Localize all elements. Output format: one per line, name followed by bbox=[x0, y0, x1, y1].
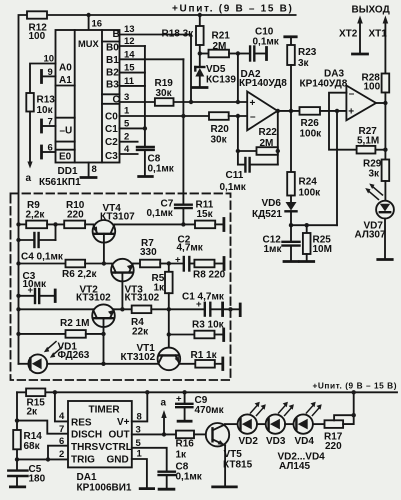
svg-text:22к: 22к bbox=[132, 326, 149, 337]
svg-text:2М: 2М bbox=[260, 138, 274, 149]
transistor VT5 KT815 bbox=[206, 423, 229, 446]
wire B1/C0 vertical down to C7 bbox=[182, 59, 184, 204]
node bus-R9 bbox=[16, 222, 20, 226]
svg-text:XT1: XT1 bbox=[369, 29, 388, 40]
node rail-R18 bbox=[198, 13, 202, 17]
op-amp DA3 KR140UD8 bbox=[346, 86, 376, 121]
resistor R25 bbox=[305, 223, 309, 227]
svg-text:C11: C11 bbox=[226, 170, 244, 181]
pin 15 wire B2 bbox=[120, 72, 145, 74]
resistor R26 bbox=[300, 107, 321, 115]
svg-text:5: 5 bbox=[124, 118, 130, 129]
svg-text:6: 6 bbox=[48, 143, 53, 154]
wire OUT pin3 bbox=[132, 433, 176, 435]
svg-text:4: 4 bbox=[124, 144, 130, 155]
svg-text:КТ3102: КТ3102 bbox=[121, 352, 156, 363]
LED VD3 bbox=[266, 414, 285, 433]
svg-text:2к: 2к bbox=[27, 407, 39, 418]
svg-text:14: 14 bbox=[124, 49, 135, 60]
wire DISCH pin7 bbox=[17, 421, 68, 434]
svg-text:+Uпит. (9 В – 15 В): +Uпит. (9 В – 15 В) bbox=[172, 4, 294, 15]
svg-text:DISCH: DISCH bbox=[71, 430, 102, 441]
svg-text:7: 7 bbox=[59, 424, 64, 435]
svg-text:VT5: VT5 bbox=[224, 449, 243, 460]
svg-text:+: + bbox=[348, 107, 354, 118]
svg-text:R18 3к: R18 3к bbox=[162, 29, 195, 40]
svg-text:КР1006ВИ1: КР1006ВИ1 bbox=[77, 483, 132, 494]
svg-text:330: 330 bbox=[140, 247, 157, 258]
pin 10 wire A0 bbox=[30, 64, 56, 94]
svg-text:1: 1 bbox=[124, 106, 130, 117]
feedback vertical DA2 minus bbox=[237, 116, 239, 165]
node rail-RES bbox=[53, 390, 57, 394]
capacitor C2 polarized bbox=[169, 263, 183, 265]
wire GND pin1 bbox=[132, 459, 147, 489]
transistor VT1 KT3102 inverted bbox=[168, 309, 170, 355]
terminal XT2 bbox=[359, 20, 361, 54]
svg-text:470мк: 470мк bbox=[195, 405, 225, 416]
svg-text:КТ3102: КТ3102 bbox=[76, 293, 111, 304]
svg-text:a: a bbox=[161, 397, 167, 408]
svg-text:TIMER: TIMER bbox=[89, 404, 121, 415]
svg-text:100: 100 bbox=[364, 82, 381, 93]
VD1 light arrows bbox=[47, 342, 63, 356]
pin 11 wire B3 bbox=[120, 85, 145, 87]
svg-text:1мк: 1мк bbox=[264, 244, 283, 255]
left vertical R14 chain bbox=[16, 392, 18, 470]
svg-text:30к: 30к bbox=[156, 88, 173, 99]
svg-text:2М: 2М bbox=[213, 41, 227, 52]
bottom +U rail bbox=[17, 391, 397, 393]
transistor VT2 KT3102 bbox=[16, 307, 20, 311]
svg-text:E0: E0 bbox=[59, 151, 72, 162]
IC DA1 KR1006VI1 timer box bbox=[68, 401, 132, 467]
resistor R5 bbox=[168, 264, 170, 272]
svg-text:0,1мк: 0,1мк bbox=[253, 37, 280, 48]
svg-text:R16: R16 bbox=[176, 439, 195, 450]
resistor R8 bbox=[190, 263, 194, 265]
capacitor C8b bbox=[159, 471, 175, 473]
svg-text:–: – bbox=[250, 112, 256, 123]
wire VT4 collector row bbox=[115, 223, 196, 225]
svg-text:10М: 10М bbox=[313, 244, 332, 255]
svg-text:5: 5 bbox=[136, 438, 142, 449]
pin 9 wire A1 + common bar bbox=[42, 75, 56, 77]
LED VD4 bbox=[294, 414, 313, 433]
svg-text:DA1: DA1 bbox=[77, 472, 97, 483]
svg-text:68к: 68к bbox=[24, 441, 41, 452]
pin 14 wire B1 bbox=[120, 58, 184, 60]
svg-text:6: 6 bbox=[59, 436, 64, 447]
svg-text:КТ3107: КТ3107 bbox=[100, 212, 135, 223]
svg-text:100: 100 bbox=[29, 31, 46, 42]
svg-text:АЛ307: АЛ307 bbox=[355, 230, 386, 241]
node R21-C10 bbox=[236, 51, 240, 55]
wire DA3 out bbox=[376, 102, 385, 104]
capacitor C11 bbox=[238, 164, 245, 166]
pin 2 wire C2 stub bbox=[120, 141, 138, 143]
resistor R27 bbox=[357, 146, 376, 154]
svg-text:OUT: OUT bbox=[109, 430, 130, 441]
svg-text:VD2: VD2 bbox=[239, 436, 259, 447]
node VD6-C12 bbox=[289, 223, 293, 227]
svg-text:1к: 1к bbox=[154, 282, 166, 293]
svg-text:+Uпит. (9 В – 15 В): +Uпит. (9 В – 15 В) bbox=[313, 380, 398, 390]
svg-text:GND: GND bbox=[107, 455, 129, 466]
pin 12 wire B0 bbox=[120, 45, 145, 47]
svg-text:V+: V+ bbox=[117, 417, 130, 428]
svg-text:–U: –U bbox=[60, 126, 73, 137]
svg-text:R13: R13 bbox=[37, 95, 56, 106]
svg-text:R24: R24 bbox=[299, 177, 318, 188]
capacitor C7 bbox=[175, 203, 192, 205]
svg-text:4: 4 bbox=[59, 411, 65, 422]
resistor R28 bbox=[382, 74, 390, 93]
VD7 light arrows bbox=[368, 186, 383, 200]
resistor R3 bbox=[169, 334, 195, 336]
svg-text:10к: 10к bbox=[37, 105, 54, 116]
op-amp DA2 KR140UD8 bbox=[247, 92, 277, 131]
svg-text:XT2: XT2 bbox=[339, 29, 358, 40]
resistor R22 bbox=[238, 150, 257, 152]
svg-text:КТ3102: КТ3102 bbox=[125, 293, 160, 304]
svg-text:ВЫХОД: ВЫХОД bbox=[352, 5, 390, 16]
resistor R9 bbox=[19, 223, 27, 225]
svg-text:2,2к: 2,2к bbox=[26, 209, 46, 220]
svg-text:R21: R21 bbox=[212, 31, 231, 42]
svg-text:R23: R23 bbox=[298, 47, 317, 58]
zener VD5 KS139 bbox=[199, 54, 201, 68]
node VT2 emitter-VT3 base-R4 bbox=[114, 308, 132, 310]
svg-text:1: 1 bbox=[137, 448, 143, 459]
resistor R24 bbox=[290, 111, 292, 172]
svg-text:C1: C1 bbox=[105, 124, 118, 135]
pin 4 wire C3 stub bbox=[120, 153, 138, 155]
capacitor C3 polarized bbox=[16, 294, 20, 298]
wire R21 node to DA2 plus input bbox=[237, 54, 239, 103]
svg-text:ФД263: ФД263 bbox=[58, 350, 90, 361]
svg-text:10мк: 10мк bbox=[23, 279, 48, 290]
svg-text:C2: C2 bbox=[105, 137, 118, 148]
capacitor C8 bbox=[137, 146, 154, 148]
svg-text:2: 2 bbox=[124, 132, 129, 143]
node a arrow bbox=[163, 414, 165, 435]
resistor R14 bbox=[13, 430, 21, 449]
svg-text:15: 15 bbox=[124, 63, 135, 74]
+U power rail top bbox=[19, 15, 296, 364]
resistor R23 bbox=[285, 35, 296, 38]
svg-text:VD6: VD6 bbox=[262, 198, 282, 209]
svg-text:3: 3 bbox=[136, 425, 141, 436]
svg-text:3к: 3к bbox=[369, 169, 381, 180]
feedback vertical DA2 out bbox=[277, 111, 279, 165]
svg-text:R26: R26 bbox=[301, 118, 320, 129]
wire B0 bus vertical to C8 bbox=[144, 46, 146, 147]
svg-text:R8 220: R8 220 bbox=[193, 270, 226, 281]
wire RES pin4 bbox=[55, 392, 68, 421]
wire VCTRL pin5 bbox=[132, 448, 167, 471]
pin 8 ground stub bbox=[88, 163, 90, 178]
wire VT1 left row bbox=[104, 363, 159, 365]
node a label bbox=[26, 173, 32, 184]
svg-text:RES: RES bbox=[71, 418, 92, 429]
pin 1 wire C0 bbox=[120, 115, 210, 117]
pin 5 wire C1 bbox=[120, 127, 145, 129]
pin 7 wire -U + common bar bbox=[42, 125, 56, 127]
svg-text:B1: B1 bbox=[106, 55, 119, 66]
svg-text:11: 11 bbox=[124, 76, 135, 87]
resistor R11 bbox=[195, 221, 215, 229]
svg-text:B2: B2 bbox=[106, 67, 119, 78]
svg-text:АЛ145: АЛ145 bbox=[279, 461, 310, 472]
svg-text:a: a bbox=[26, 173, 32, 184]
svg-text:8: 8 bbox=[92, 164, 97, 175]
svg-text:MUX: MUX bbox=[78, 39, 99, 49]
svg-text:R20: R20 bbox=[211, 124, 230, 135]
svg-text:VCTRL: VCTRL bbox=[99, 442, 132, 453]
svg-text:КТ815: КТ815 bbox=[223, 460, 253, 471]
node R20-DA2 minus bbox=[229, 115, 248, 117]
svg-text:0,1мк: 0,1мк bbox=[147, 208, 174, 219]
resistor R18 bbox=[199, 15, 201, 26]
svg-text:13: 13 bbox=[124, 24, 135, 35]
svg-text:9: 9 bbox=[48, 67, 53, 78]
svg-text:12: 12 bbox=[124, 36, 135, 47]
svg-text:4,7мк: 4,7мк bbox=[177, 243, 204, 254]
svg-text:8: 8 bbox=[137, 412, 142, 423]
svg-text:THRS: THRS bbox=[71, 442, 99, 453]
svg-text:10: 10 bbox=[44, 54, 55, 65]
resistor R6 bbox=[16, 261, 20, 265]
wire DA2 out bbox=[278, 110, 300, 112]
svg-text:1к: 1к bbox=[176, 449, 188, 460]
svg-text:R1 1к: R1 1к bbox=[191, 350, 218, 361]
node C1-B0bus bbox=[143, 126, 147, 130]
svg-text:0,1мк: 0,1мк bbox=[220, 182, 247, 193]
svg-text:B3: B3 bbox=[106, 80, 119, 91]
svg-text:+: + bbox=[176, 394, 182, 405]
svg-text:VD3: VD3 bbox=[266, 436, 286, 447]
svg-text:B0: B0 bbox=[106, 42, 119, 53]
dashed screen box bbox=[11, 193, 231, 380]
svg-text:R2 1М: R2 1М bbox=[60, 318, 89, 329]
svg-text:100к: 100к bbox=[299, 188, 322, 199]
svg-text:30к: 30к bbox=[211, 135, 228, 146]
svg-text:180: 180 bbox=[29, 474, 46, 485]
resistor R19 bbox=[155, 98, 174, 106]
capacitor C10 bbox=[238, 53, 249, 55]
wire TRIG pin2 bbox=[17, 458, 68, 460]
resistor R7 bbox=[133, 263, 140, 265]
svg-text:100к: 100к bbox=[300, 129, 323, 140]
svg-text:C: C bbox=[113, 94, 120, 105]
wire V+ pin8 bbox=[132, 392, 148, 421]
wire DA3 minus feedback bbox=[329, 93, 357, 150]
resistor R1 bbox=[180, 363, 196, 365]
svg-text:220: 220 bbox=[325, 441, 342, 452]
wire pin16 bbox=[88, 15, 90, 30]
pin 6 wire E0 + common bar bbox=[42, 151, 56, 153]
screen common stub bbox=[224, 308, 240, 310]
capacitor C5 bbox=[8, 469, 27, 471]
svg-text:R3 10к: R3 10к bbox=[192, 320, 225, 331]
svg-text:КР140УД8: КР140УД8 bbox=[239, 78, 287, 89]
resistor R16 bbox=[176, 431, 194, 439]
svg-text:VD4: VD4 bbox=[295, 436, 315, 447]
svg-text:R6 2,2к: R6 2,2к bbox=[62, 269, 97, 280]
resistor R21 bbox=[200, 53, 209, 55]
transistor VT3 KT3102 bbox=[111, 259, 134, 282]
resistor R17 trimmer bbox=[325, 420, 344, 428]
svg-text:C3: C3 bbox=[105, 151, 118, 162]
IC DD1 K561KP1 MUX box bbox=[56, 30, 120, 163]
svg-text:КС139: КС139 bbox=[206, 75, 236, 86]
diode VD6 KD521 bbox=[290, 196, 292, 203]
svg-text:0,1мк: 0,1мк bbox=[148, 164, 175, 175]
svg-text:TRIG: TRIG bbox=[71, 455, 95, 466]
svg-text:A1: A1 bbox=[59, 75, 72, 86]
resistor R4 bbox=[132, 306, 152, 314]
wire R13 to node a arrow bbox=[29, 112, 31, 164]
svg-text:220: 220 bbox=[67, 209, 84, 220]
svg-text:DD1: DD1 bbox=[58, 166, 78, 177]
svg-text:–: – bbox=[349, 89, 355, 100]
capacitor C1 polarized bbox=[169, 308, 204, 310]
pin 13 wire B bbox=[120, 35, 192, 103]
svg-text:КД521: КД521 bbox=[252, 209, 282, 220]
svg-text:5,1М: 5,1М bbox=[357, 136, 379, 147]
wire VD6 node to DA3 plus bbox=[291, 224, 337, 226]
capacitor C4 bbox=[16, 238, 20, 242]
svg-text:3: 3 bbox=[124, 92, 129, 103]
resistor R13 bbox=[26, 93, 34, 112]
LED VD7 AL307 bbox=[376, 201, 394, 219]
svg-text:R22: R22 bbox=[259, 127, 278, 138]
svg-text:К561КП1: К561КП1 bbox=[39, 177, 81, 188]
svg-text:2: 2 bbox=[59, 449, 64, 460]
svg-text:C4 0,1мк: C4 0,1мк bbox=[21, 252, 64, 263]
svg-text:16: 16 bbox=[92, 19, 103, 30]
pin 3 wire C to DA2 plus input bbox=[120, 101, 248, 103]
svg-text:15к: 15к bbox=[197, 209, 214, 220]
svg-text:+: + bbox=[250, 98, 256, 109]
wire THRS pin6 bbox=[48, 446, 68, 460]
node R18-R21-VD5 bbox=[198, 51, 202, 55]
resistor R20 bbox=[209, 112, 229, 120]
resistor R29 bbox=[382, 160, 390, 182]
output vertical XT1 bbox=[384, 20, 386, 74]
resistor R15 bbox=[26, 389, 45, 397]
resistor R12 bbox=[27, 11, 47, 18]
transistor VT4 KT3107 bbox=[93, 220, 116, 243]
svg-text:0,1мк: 0,1мк bbox=[176, 471, 203, 482]
resistor R10 bbox=[64, 221, 85, 229]
svg-text:A0: A0 bbox=[59, 63, 72, 74]
svg-text:3к: 3к bbox=[298, 58, 310, 69]
capacitor C9 bbox=[182, 390, 186, 394]
node rail-pin16 bbox=[86, 13, 90, 17]
photodiode VD1 FD263 bbox=[19, 363, 29, 365]
LED VD2 bbox=[238, 414, 257, 433]
resistor R2 bbox=[16, 332, 20, 336]
capacitor C12 bbox=[290, 225, 292, 241]
svg-text:КР140УД8: КР140УД8 bbox=[300, 78, 348, 89]
svg-text:+: + bbox=[175, 255, 181, 266]
svg-text:C0: C0 bbox=[105, 111, 118, 122]
svg-text:C1 4,7мк: C1 4,7мк bbox=[182, 292, 225, 303]
svg-text:7: 7 bbox=[48, 117, 53, 128]
svg-text:VD5: VD5 bbox=[206, 64, 226, 75]
wire rail label bbox=[172, 4, 294, 15]
